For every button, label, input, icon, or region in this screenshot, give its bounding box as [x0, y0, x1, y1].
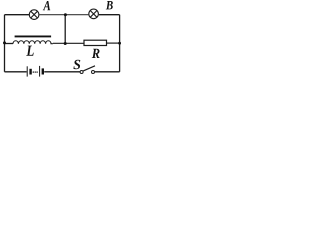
battery dots	[33, 71, 34, 72]
label R	[92, 49, 100, 58]
wire left rail	[4, 15, 6, 72]
switch S lever	[83, 66, 95, 71]
inductor L coil	[13, 41, 53, 44]
wire right rail	[119, 15, 121, 72]
wire top rail segment left of lamp A	[5, 14, 30, 16]
label B	[106, 1, 113, 9]
battery cell 2 short thick plate	[42, 68, 44, 74]
switch S contact circle left	[80, 71, 83, 74]
label S	[73, 60, 80, 69]
wire bottom rail left of battery	[5, 71, 27, 73]
inductor L iron core bar	[15, 35, 52, 37]
wire bottom rail right of switch	[95, 71, 120, 73]
label L	[26, 46, 33, 56]
node junction dot right rail	[118, 42, 121, 45]
switch S contact circle right	[92, 71, 95, 74]
battery cell 1 long plate	[26, 66, 28, 76]
battery cell 1 short thick plate	[29, 69, 31, 75]
label A	[43, 1, 51, 10]
wire middle vertical branch	[64, 15, 66, 44]
wire stub left rail to inductor	[5, 43, 14, 45]
wire top rail between lamp A and lamp B	[40, 14, 89, 16]
resistor R	[84, 40, 107, 45]
wire top rail right of lamp B	[99, 14, 120, 16]
wire resistor to right rail	[107, 42, 120, 44]
node junction dot top	[64, 13, 67, 16]
battery cell 2 long plate	[39, 66, 41, 77]
wire inductor to resistor through junction	[53, 42, 84, 44]
lamp A	[29, 10, 39, 20]
wire bottom rail between battery and switch	[44, 71, 80, 73]
node junction dot middle	[64, 42, 67, 45]
node junction dot left rail	[3, 41, 6, 44]
lamp B	[89, 9, 99, 19]
